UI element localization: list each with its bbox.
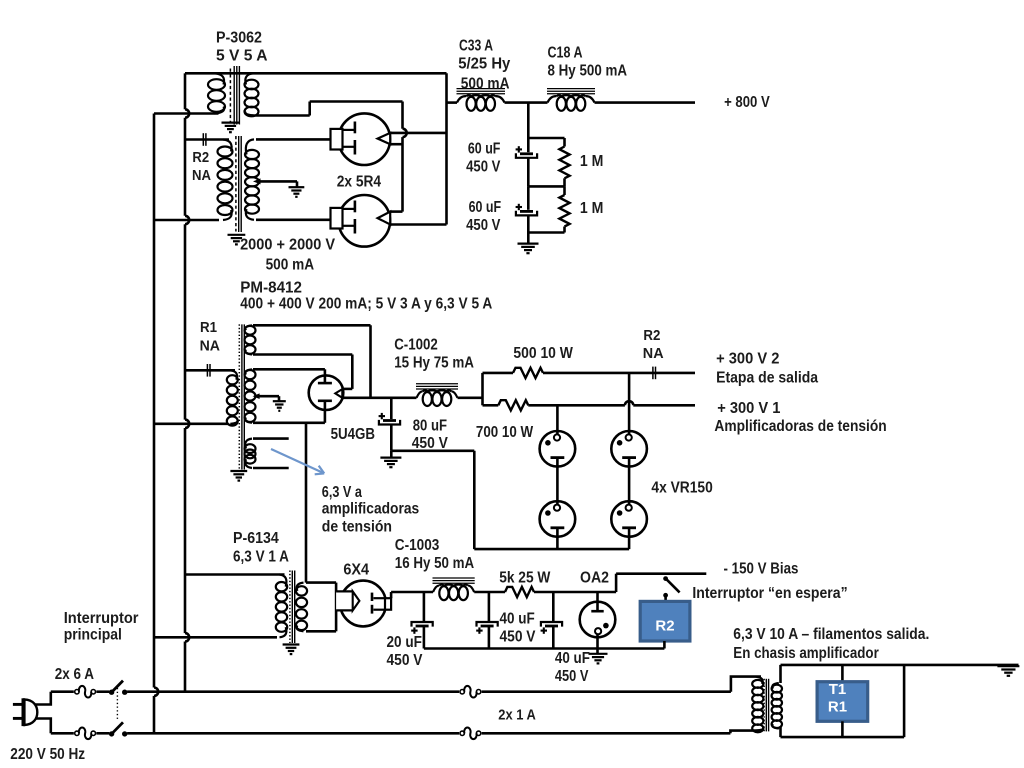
svg-text:OA2: OA2 xyxy=(580,569,609,586)
svg-text:450 V: 450 V xyxy=(500,628,537,645)
svg-text:220 V 50 Hz: 220 V 50 Hz xyxy=(10,746,85,763)
svg-text:5 V 5 A: 5 V 5 A xyxy=(216,48,268,65)
svg-text:PM-8412: PM-8412 xyxy=(240,280,302,297)
svg-text:450 V: 450 V xyxy=(466,158,501,175)
svg-text:400 + 400 V 200 mA; 5 V 3 A y: 400 + 400 V 200 mA; 5 V 3 A y 6,3 V 5 A xyxy=(240,296,492,313)
svg-text:NA: NA xyxy=(643,346,664,362)
svg-text:4x VR150: 4x VR150 xyxy=(651,480,713,497)
svg-text:R1: R1 xyxy=(200,320,217,336)
svg-text:700 10 W: 700 10 W xyxy=(476,424,533,441)
svg-text:R2: R2 xyxy=(643,328,660,344)
svg-text:+ 800 V: + 800 V xyxy=(724,94,770,111)
svg-text:40 uF: 40 uF xyxy=(555,650,590,667)
svg-text:8 Hy 500 mA: 8 Hy 500 mA xyxy=(548,63,628,80)
svg-text:2x 5R4: 2x 5R4 xyxy=(337,173,382,190)
svg-text:60 uF: 60 uF xyxy=(469,199,502,216)
svg-text:6,3 V 1 A: 6,3 V 1 A xyxy=(233,549,289,566)
svg-text:6,3 V a: 6,3 V a xyxy=(322,484,362,501)
svg-text:NA: NA xyxy=(192,168,211,184)
svg-text:C33 A: C33 A xyxy=(459,38,493,55)
svg-text:6,3 V 10 A – filamentos salida: 6,3 V 10 A – filamentos salida. xyxy=(733,626,929,643)
svg-text:450 V: 450 V xyxy=(466,217,501,234)
svg-text:- 150 V Bias: - 150 V Bias xyxy=(724,561,799,578)
svg-text:450 V: 450 V xyxy=(555,668,589,685)
svg-text:2x 1 A: 2x 1 A xyxy=(498,707,536,724)
svg-text:C-1003: C-1003 xyxy=(395,537,440,554)
svg-text:500 mA: 500 mA xyxy=(266,257,315,274)
svg-text:80 uF: 80 uF xyxy=(413,417,447,434)
svg-text:450 V: 450 V xyxy=(387,652,424,669)
svg-text:R2: R2 xyxy=(192,150,209,166)
svg-text:20 uF: 20 uF xyxy=(387,634,422,651)
svg-text:C-1002: C-1002 xyxy=(394,337,438,354)
svg-text:5k 25 W: 5k 25 W xyxy=(499,569,550,586)
svg-text:5U4GB: 5U4GB xyxy=(331,426,375,443)
svg-text:40 uF: 40 uF xyxy=(500,610,535,627)
svg-text:450 V: 450 V xyxy=(412,435,449,452)
svg-text:Interruptor: Interruptor xyxy=(64,610,139,627)
svg-text:Interruptor “en espera”: Interruptor “en espera” xyxy=(692,585,847,602)
svg-text:R2: R2 xyxy=(655,617,674,634)
svg-text:Etapa de salida: Etapa de salida xyxy=(716,370,818,387)
svg-text:+ 300 V 2: + 300 V 2 xyxy=(716,351,780,368)
svg-text:P-3062: P-3062 xyxy=(216,30,262,47)
svg-text:R1: R1 xyxy=(828,699,847,716)
svg-text:2x 6 A: 2x 6 A xyxy=(55,666,94,683)
svg-text:T1: T1 xyxy=(829,681,847,698)
svg-text:5/25 Hy: 5/25 Hy xyxy=(458,55,510,72)
svg-text:500 mA: 500 mA xyxy=(461,75,510,92)
svg-text:2000 + 2000 V: 2000 + 2000 V xyxy=(240,237,336,254)
svg-text:60 uF: 60 uF xyxy=(468,140,501,157)
svg-text:16 Hy 50 mA: 16 Hy 50 mA xyxy=(395,555,474,572)
svg-text:1 M: 1 M xyxy=(580,200,604,217)
svg-text:de tensión: de tensión xyxy=(322,518,392,535)
svg-text:+ 300 V 1: + 300 V 1 xyxy=(717,400,781,417)
svg-text:P-6134: P-6134 xyxy=(233,530,279,547)
svg-text:6X4: 6X4 xyxy=(343,561,369,578)
svg-text:500 10 W: 500 10 W xyxy=(513,345,573,362)
svg-text:principal: principal xyxy=(64,627,122,644)
svg-text:Amplificadoras de tensión: Amplificadoras de tensión xyxy=(714,418,886,435)
svg-text:En chasis amplificador: En chasis amplificador xyxy=(733,645,879,662)
svg-text:15 Hy 75 mA: 15 Hy 75 mA xyxy=(394,354,474,371)
svg-text:NA: NA xyxy=(200,339,221,355)
svg-text:C18 A: C18 A xyxy=(548,45,583,62)
svg-text:1 M: 1 M xyxy=(580,153,604,170)
svg-text:amplificadoras: amplificadoras xyxy=(322,501,420,518)
